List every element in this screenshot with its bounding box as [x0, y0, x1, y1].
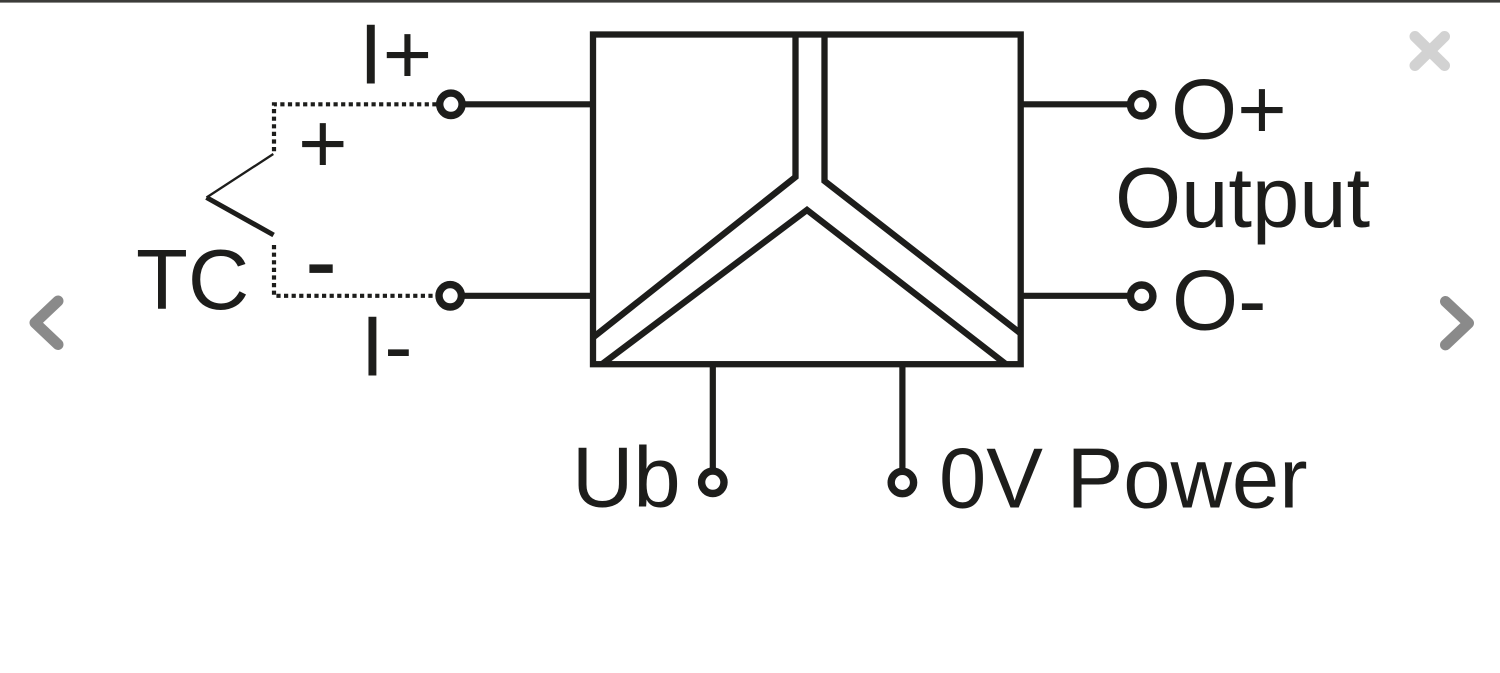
nav arrow previous: [35, 301, 58, 345]
wire Ub from module: [710, 364, 716, 470]
svg-text:TC: TC: [136, 233, 249, 328]
top photo edge bar (decorative): [0, 0, 1500, 3]
wire O+ from module: [1021, 101, 1134, 107]
isolation module body: [593, 35, 1021, 365]
wire I- to module: [458, 293, 593, 299]
thermocouple TC: [207, 154, 274, 235]
svg-text:I+: I+: [359, 8, 432, 103]
wire 0V from module: [899, 364, 905, 470]
wire: TC minus lead (dotted): [274, 245, 435, 296]
close button: [1415, 37, 1445, 66]
svg-text:+: +: [298, 97, 348, 192]
terminal I-: [439, 285, 461, 307]
svg-text:0V Power: 0V Power: [939, 432, 1308, 527]
wire: TC plus lead (dotted): [274, 104, 437, 153]
svg-text:I-: I-: [361, 300, 413, 395]
terminal O+: [1131, 94, 1153, 116]
label - (TC negative): [309, 264, 332, 273]
svg-text:Ub: Ub: [572, 431, 681, 526]
svg-text:O-: O-: [1172, 253, 1266, 348]
terminal 0V: [891, 471, 913, 493]
terminal O-: [1131, 285, 1153, 307]
nav arrow next: [1446, 302, 1469, 345]
terminal Ub: [702, 471, 724, 493]
terminal I+: [440, 93, 462, 115]
wire I+ to module: [459, 101, 593, 107]
svg-text:Output: Output: [1115, 151, 1370, 246]
wire O- from module: [1021, 293, 1134, 299]
svg-text:O+: O+: [1171, 63, 1287, 158]
isolation barrier (3-port Y divider): [593, 35, 1021, 365]
